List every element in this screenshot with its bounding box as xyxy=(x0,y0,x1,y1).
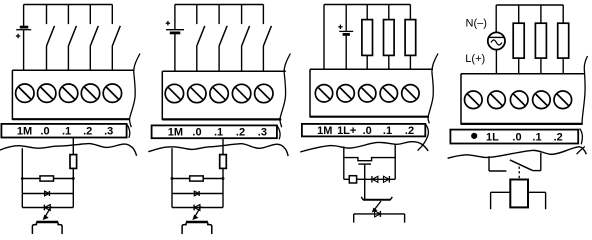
svg-text:.1: .1 xyxy=(532,132,541,144)
svg-text:L(+): L(+) xyxy=(465,53,485,65)
svg-text:.0: .0 xyxy=(192,126,201,138)
svg-text:1L+: 1L+ xyxy=(337,125,356,137)
svg-text:.0: .0 xyxy=(512,132,521,144)
svg-text:.2: .2 xyxy=(236,126,245,138)
svg-text:.2: .2 xyxy=(554,132,563,144)
svg-text:1M: 1M xyxy=(317,125,332,137)
svg-text:.1: .1 xyxy=(214,126,223,138)
svg-text:.3: .3 xyxy=(104,126,113,138)
svg-text:.1: .1 xyxy=(383,125,392,137)
svg-text:.1: .1 xyxy=(62,126,71,138)
svg-text:.0: .0 xyxy=(363,125,372,137)
svg-text:1M: 1M xyxy=(17,126,32,138)
svg-text:1M: 1M xyxy=(168,126,183,138)
svg-text:.0: .0 xyxy=(40,126,49,138)
svg-text:.2: .2 xyxy=(83,126,92,138)
svg-text:.3: .3 xyxy=(258,126,267,138)
svg-text:N(–): N(–) xyxy=(466,18,487,30)
svg-text:.2: .2 xyxy=(405,125,414,137)
svg-text:1L: 1L xyxy=(486,132,499,144)
